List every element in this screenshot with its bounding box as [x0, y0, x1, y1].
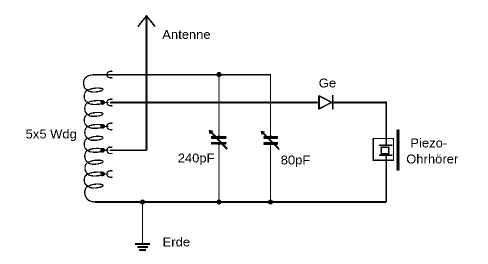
capacitor C1 240pF (variable)	[209, 130, 228, 202]
wire antenna tap horizontal	[110, 149, 147, 151]
inductor L1 coil	[84, 71, 113, 202]
wire C2 upper (corner from top bus)	[270, 74, 272, 136]
tap hook 4	[107, 147, 113, 153]
wire earphone lower	[385, 160, 387, 202]
wire C1 upper	[218, 75, 220, 137]
svg-text:Ohrhörer: Ohrhörer	[406, 152, 459, 167]
svg-text:80pF: 80pF	[281, 152, 311, 167]
node junction ground	[140, 199, 145, 204]
tap dot 2	[100, 100, 105, 105]
wire top bus	[110, 74, 271, 76]
antenna ANT	[110, 16, 155, 150]
tap hook 3	[107, 123, 113, 129]
node junction top C1	[216, 72, 221, 77]
tap dot 3	[100, 124, 105, 129]
wire bottom bus	[95, 201, 386, 203]
coil top lead + spine	[84, 75, 110, 202]
wire antenna vertical	[146, 17, 148, 151]
tap dot 4	[100, 148, 105, 153]
svg-text:Ge: Ge	[319, 75, 336, 90]
tap hook 2	[107, 99, 113, 105]
svg-text:5x5 Wdg: 5x5 Wdg	[26, 126, 77, 141]
node junction C1 bottom	[216, 199, 221, 204]
coil turn loops	[88, 87, 103, 92]
ground GND	[135, 243, 150, 251]
wire detector bus	[110, 102, 318, 104]
capacitor C2 80pF (variable)	[261, 131, 280, 202]
svg-text:Antenne: Antenne	[162, 27, 210, 42]
diode D1 Ge	[319, 95, 333, 109]
node junction C2 bottom	[268, 199, 273, 204]
antenna arrowhead	[138, 16, 155, 27]
svg-text:Erde: Erde	[163, 235, 190, 250]
tap hook 5	[107, 171, 113, 177]
wire diode to earphone	[332, 103, 386, 139]
wire ground drop	[142, 202, 144, 243]
svg-text:240pF: 240pF	[178, 150, 215, 165]
tap dot 5	[100, 172, 105, 177]
tap links	[104, 102, 109, 104]
svg-text:Piezo-: Piezo-	[410, 135, 447, 150]
tap hook top	[107, 71, 113, 77]
earphone BZ1 piezo	[373, 130, 398, 171]
